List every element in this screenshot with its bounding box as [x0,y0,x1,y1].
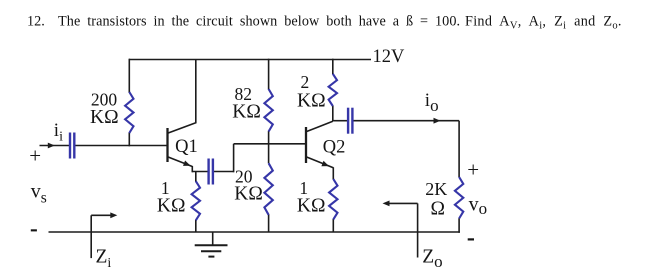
svg-text:KΩ: KΩ [90,107,119,128]
svg-text:2K: 2K [425,179,447,199]
svg-text:Ω: Ω [430,199,445,220]
svg-text:KΩ: KΩ [297,196,326,217]
svg-text:12V: 12V [373,47,406,67]
svg-text:12.: 12. [27,13,45,29]
svg-text:KΩ: KΩ [234,184,263,205]
svg-text:2: 2 [301,72,310,92]
svg-text:Q1: Q1 [175,137,198,157]
svg-text:KΩ: KΩ [232,102,261,123]
svg-text:KΩ: KΩ [297,91,326,112]
svg-text:Q2: Q2 [323,138,346,158]
svg-text:+: + [467,158,479,182]
svg-text:KΩ: KΩ [157,196,186,217]
svg-text:Find AV​, Ai​, Zi​ and Zo​.: Find AV​, Ai​, Zi​ and Zo​. [465,13,622,31]
svg-text:The transistors in the circuit: The transistors in the circuit shown bel… [58,13,460,29]
svg-text:+: + [29,143,41,167]
